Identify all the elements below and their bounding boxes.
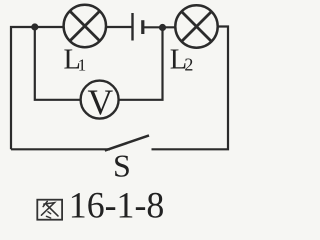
svg-text:S: S	[113, 148, 131, 184]
svg-text:2: 2	[184, 55, 193, 75]
svg-text:V: V	[88, 82, 114, 122]
svg-text:16-1-8: 16-1-8	[69, 186, 165, 227]
svg-text:1: 1	[78, 56, 87, 75]
